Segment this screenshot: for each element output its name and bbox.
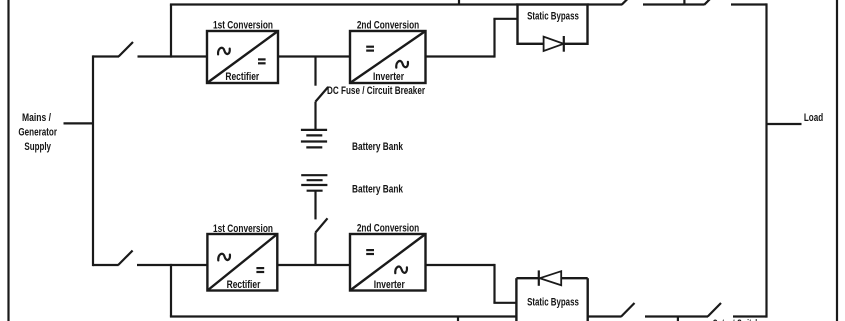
- static bypass box bottom: [516, 278, 587, 321]
- svg-text:Load: Load: [804, 112, 823, 124]
- rectifier U1 DC symbol: [258, 59, 266, 63]
- rectifier U3 AC symbol: [218, 254, 230, 261]
- svg-text:Inverter: Inverter: [373, 71, 405, 83]
- svg-text:Mains /: Mains /: [22, 112, 51, 124]
- breaker CB1 blade: [316, 87, 329, 102]
- svg-text:Battery Bank: Battery Bank: [352, 184, 404, 196]
- wire right boundary: [836, 0, 838, 321]
- label Rectifier (top): [225, 71, 259, 83]
- wire CB1 to battery BT1: [314, 102, 316, 130]
- wire mains bus vertical: [92, 55, 94, 266]
- label 1st Conversion (bottom): [213, 223, 273, 235]
- wire U2 output to bypass box: [426, 19, 518, 58]
- switch S3 blade (clipped at top): [622, 0, 632, 5]
- wire top bypass line: [170, 3, 518, 5]
- wire bypass top to S3: [588, 3, 623, 5]
- wire load stub: [767, 123, 802, 125]
- rectifier U1 box: [207, 31, 278, 83]
- switch S2 (bottom input): [118, 251, 132, 266]
- wire battery tap top: [314, 57, 316, 86]
- wire bypass bottom to S5: [588, 315, 622, 317]
- rectifier U3 DC symbol: [256, 268, 264, 272]
- label 2nd Conversion (bottom): [357, 223, 420, 235]
- wire U3 to U4 (DC link bottom): [277, 264, 350, 266]
- battery BT1: [301, 130, 327, 148]
- wire S1 to rectifier U1: [138, 55, 208, 57]
- label Inverter (bottom): [374, 279, 406, 291]
- label Mains / Generator Supply: [18, 112, 57, 153]
- svg-text:Generator: Generator: [18, 127, 57, 139]
- inverter U2 AC symbol: [396, 61, 408, 68]
- wire top bypass tap vertical: [170, 5, 172, 58]
- label DC Fuse / Circuit Breaker: [327, 85, 426, 97]
- inverter U4 AC symbol: [395, 267, 407, 274]
- label 1st Conversion (top): [213, 20, 273, 32]
- svg-text:Inverter: Inverter: [374, 279, 406, 291]
- wire top feed: [93, 55, 119, 57]
- inverter U4 box: [350, 234, 426, 291]
- label Battery Bank (bottom): [352, 184, 404, 196]
- label Inverter (top): [373, 71, 405, 83]
- wire mains stub: [64, 122, 94, 124]
- wire bottom bypass line: [170, 315, 517, 317]
- label Battery Bank (top): [352, 141, 404, 153]
- wire S2 to rectifier U3: [137, 264, 207, 266]
- svg-text:Rectifier: Rectifier: [227, 279, 261, 291]
- svg-text:Supply: Supply: [24, 141, 51, 153]
- node tick top B: [683, 0, 685, 5]
- wire S3 to S4: [643, 3, 705, 5]
- svg-text:Rectifier: Rectifier: [225, 71, 259, 83]
- inverter U2 DC symbol: [366, 47, 374, 51]
- node tick top A: [458, 0, 460, 5]
- switch S1 (top input): [119, 42, 133, 57]
- wire S5 to S6: [645, 315, 708, 317]
- node tick bottom B: [677, 317, 679, 321]
- wire load bus vertical: [765, 3, 767, 317]
- label Output Switch (cut off at bottom edge): [713, 318, 760, 321]
- wire S4 to load bus: [731, 3, 767, 5]
- diode D2: [539, 270, 561, 285]
- label Load: [804, 112, 823, 124]
- wire battery tap bottom: [314, 233, 316, 266]
- battery BT2: [301, 175, 327, 191]
- switch S6 blade: [708, 303, 721, 317]
- wire U1 to U2 (DC link top): [278, 55, 350, 57]
- wire bottom feed: [93, 264, 119, 266]
- wire CB2 to battery BT2: [314, 191, 316, 220]
- switch S5 blade: [621, 303, 634, 317]
- svg-text:Battery Bank: Battery Bank: [352, 141, 404, 153]
- label Rectifier (bottom): [227, 279, 261, 291]
- label 2nd Conversion (top): [357, 20, 420, 32]
- breaker CB2 blade: [316, 218, 328, 232]
- wire left boundary: [7, 0, 9, 321]
- inverter U4 DC symbol: [366, 250, 374, 254]
- wire S6 to load bus: [733, 315, 767, 317]
- node tick bottom A: [457, 317, 459, 321]
- diode D1: [544, 36, 564, 52]
- rectifier U1 AC symbol: [218, 48, 230, 55]
- wire U4 output to bypass box bottom: [426, 264, 517, 303]
- svg-text:Static Bypass: Static Bypass: [527, 297, 579, 309]
- svg-text:DC Fuse / Circuit Breaker: DC Fuse / Circuit Breaker: [327, 85, 426, 97]
- wire bottom bypass tap vertical: [170, 264, 172, 317]
- switch S4 blade (clipped at top): [704, 0, 714, 5]
- svg-text:Static Bypass: Static Bypass: [527, 11, 579, 23]
- static bypass box top: [518, 5, 588, 44]
- rectifier U3 box: [207, 234, 277, 291]
- inverter U2 box: [350, 31, 426, 83]
